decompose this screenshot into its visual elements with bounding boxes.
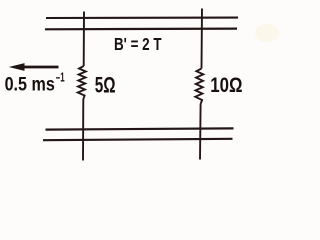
wire bottom rail lower [43, 139, 233, 140]
svg-text:5Ω: 5Ω [95, 73, 116, 98]
wire bottom rail upper [46, 128, 234, 129]
wire right conductor lower segment [199, 104, 202, 160]
wire top rail lower [45, 28, 237, 31]
wire left conductor upper segment [83, 12, 85, 67]
velocity arrow 0.5 ms-1 [9, 63, 59, 71]
resistor R2 10 ohm [195, 69, 203, 105]
svg-text:–1: –1 [56, 71, 65, 85]
wire left conductor lower segment [82, 99, 84, 161]
svg-text:10Ω: 10Ω [210, 73, 242, 97]
stain smudge top right [255, 24, 279, 42]
wire top rail upper [46, 17, 238, 19]
wire right conductor upper segment [201, 9, 204, 69]
svg-text:B' = 2 T: B' = 2 T [114, 34, 162, 54]
svg-text:0.5 ms: 0.5 ms [5, 74, 55, 96]
resistor R1 5 ohm [78, 66, 86, 99]
